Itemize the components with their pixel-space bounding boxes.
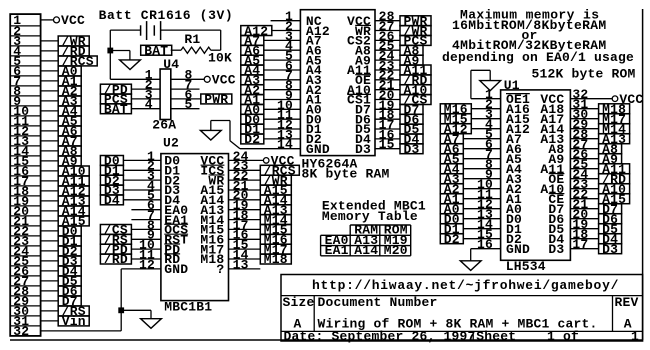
wire J1 pin 6: [41, 70, 59, 72]
net label A1: [241, 95, 264, 105]
svg-text:Vin: Vin: [62, 314, 86, 329]
wire: [375, 39, 400, 41]
wire: [375, 108, 400, 110]
wire: [264, 39, 301, 41]
wire: [375, 49, 400, 51]
wire J1 pin 17: [41, 180, 59, 182]
wire: [131, 228, 161, 230]
wire: [463, 158, 500, 160]
net label D6: [58, 286, 81, 296]
wire: [375, 99, 400, 101]
wire: [229, 258, 261, 260]
wire J1 pin 13: [41, 140, 59, 142]
net label A8: [400, 45, 423, 55]
wire: [570, 198, 598, 200]
net label A3: [241, 75, 264, 85]
svg-text:5: 5: [185, 97, 193, 112]
wire: [463, 148, 500, 150]
svg-text:D2: D2: [244, 132, 260, 147]
net label /PD: [100, 84, 131, 94]
net label /RCS: [58, 56, 97, 66]
op-amp U4 26A reset IC: [160, 69, 171, 120]
net label A2: [241, 85, 264, 95]
wire: [375, 69, 400, 71]
svg-text:4: 4: [145, 97, 153, 112]
wire: [264, 79, 301, 81]
wire J1 pin 3: [41, 40, 59, 42]
wire J1 pin 23: [41, 240, 59, 242]
wire J1 pin 24: [41, 250, 59, 252]
net label /CS: [100, 225, 131, 235]
wire: [264, 118, 301, 120]
svg-text:16: 16: [477, 237, 493, 252]
wire: [264, 49, 301, 51]
wire J1 pin 4: [41, 50, 59, 52]
svg-text:M20: M20: [384, 243, 408, 258]
svg-text:MBC1B1: MBC1B1: [164, 299, 212, 314]
svg-text:U4: U4: [163, 57, 179, 72]
wire junction to ground: [110, 50, 130, 52]
wire J1 pin 28: [41, 290, 59, 292]
net label D5: [599, 224, 622, 234]
wire: [471, 128, 500, 130]
net label M18: [260, 254, 291, 264]
wire: [264, 89, 301, 91]
net label A14: [260, 195, 291, 205]
wire: [463, 218, 500, 220]
svg-text:Document Number: Document Number: [318, 295, 438, 310]
net label A7: [241, 36, 264, 46]
title block: [281, 275, 643, 342]
wire J1 pin 26: [41, 270, 59, 272]
net label A5: [241, 55, 264, 65]
net label A2: [440, 184, 463, 194]
svg-text:?: ?: [216, 262, 224, 277]
net label D4: [100, 195, 123, 205]
net label A12: [440, 124, 471, 134]
wire J1 pin 9: [41, 100, 59, 102]
net label D2: [241, 134, 264, 144]
net label A6: [58, 126, 81, 136]
wire: [123, 159, 160, 161]
net label D3: [599, 244, 622, 254]
net label A4: [241, 65, 264, 75]
net label A2: [58, 86, 81, 96]
net label /RD: [599, 174, 630, 184]
net label A3: [440, 174, 463, 184]
svg-text:D3: D3: [602, 242, 618, 257]
wire: [570, 138, 598, 140]
junction ground rail: [119, 308, 124, 313]
svg-text:A14: A14: [354, 243, 378, 258]
net label D6: [599, 214, 622, 224]
wire: [375, 30, 400, 32]
net label A10: [599, 184, 630, 194]
sheet border right: [642, 9, 644, 340]
wire J1 pin 27: [41, 280, 59, 282]
net label A8: [599, 144, 622, 154]
wire: [229, 248, 261, 250]
wire: [375, 59, 400, 61]
wire: [570, 228, 598, 230]
battery B1 CR1616: [140, 25, 142, 35]
wire: [570, 238, 598, 240]
net label /RS: [58, 306, 89, 316]
net label D2: [100, 175, 123, 185]
resistor R1 10K: [171, 49, 181, 51]
svg-text:BAT: BAT: [104, 102, 128, 117]
wire: [264, 69, 301, 71]
wire: [463, 138, 500, 140]
svg-text:D3: D3: [548, 242, 564, 257]
net label /RCS: [260, 165, 299, 175]
wire J1 pin 5: [41, 60, 59, 62]
wire: [463, 188, 500, 190]
net label A14: [58, 206, 89, 216]
net label A13: [599, 134, 630, 144]
wire J1 pin 15: [41, 160, 59, 162]
wire J1 pin 31: [41, 320, 59, 322]
net label D3: [400, 144, 423, 154]
net label A1: [440, 194, 463, 204]
net label M14: [599, 124, 630, 134]
svg-text:26A: 26A: [152, 118, 176, 133]
net label D7: [58, 296, 81, 306]
wire ROM GND pin 16: [471, 248, 501, 250]
net label A10: [400, 85, 431, 95]
net label A11: [58, 176, 89, 186]
wire stub RAM pin 1 NC: [271, 20, 301, 22]
net label A9: [599, 154, 622, 164]
ground: [120, 60, 141, 70]
ground: [200, 130, 221, 140]
wire: [375, 138, 400, 140]
svg-text:32: 32: [13, 324, 29, 339]
net label A11: [599, 164, 630, 174]
svg-text:M18: M18: [264, 252, 288, 267]
wire: [570, 148, 598, 150]
svg-text:GND: GND: [506, 242, 530, 257]
net label /RS: [100, 234, 131, 244]
wire: [375, 89, 400, 91]
wire stub: [171, 88, 200, 90]
net label A15: [58, 216, 89, 226]
wire: [264, 138, 301, 140]
wire: [570, 188, 598, 190]
wire J1 pin 25: [41, 260, 59, 262]
wire J1 pin 12: [41, 130, 59, 132]
ground: [141, 319, 162, 329]
net label A5: [58, 116, 81, 126]
connector J1 (cart edge, 32 pins): [10, 14, 40, 336]
ground: [460, 261, 481, 271]
net label A4: [440, 164, 463, 174]
net label D7: [400, 104, 423, 114]
power arrow at ROM pin 1: [471, 98, 501, 100]
net label D4: [58, 266, 81, 276]
net label M14: [260, 215, 291, 225]
wire U2 GND pin 12: [121, 268, 161, 270]
wire: [375, 118, 400, 120]
wire: [375, 20, 400, 22]
net label A0: [58, 66, 81, 76]
net label /CS: [400, 95, 431, 105]
wire to ground: [121, 309, 151, 311]
net label A0: [241, 104, 264, 114]
net label D0: [58, 226, 81, 236]
net label A3: [58, 96, 81, 106]
net label D1: [58, 236, 81, 246]
svg-text:Batt CR1616 (3V): Batt CR1616 (3V): [99, 8, 234, 23]
wire: [463, 198, 500, 200]
wire: [264, 99, 301, 101]
wire: [375, 79, 400, 81]
net label /RD: [100, 254, 131, 264]
net label D1: [241, 124, 264, 134]
power VCC at J1 pin 1: [41, 19, 54, 21]
svg-text:1 of: 1 of: [547, 329, 579, 344]
svg-text:EA1: EA1: [325, 243, 349, 258]
wire J1 pin 20: [41, 210, 59, 212]
net label A13: [58, 196, 89, 206]
svg-text:D2: D2: [444, 232, 460, 247]
table extended MBC1 memory: [350, 224, 411, 226]
wire: [570, 248, 598, 250]
wire battery positive to R1: [161, 29, 221, 31]
wire: [463, 238, 500, 240]
IC U3 HY6264A 8K RAM: [300, 10, 375, 156]
svg-text:Sheet: Sheet: [476, 329, 516, 344]
svg-text:depending on EA0/1 usage: depending on EA0/1 usage: [442, 50, 634, 65]
wire EA stub: [131, 209, 161, 211]
wire: [131, 238, 161, 240]
wire: [570, 218, 598, 220]
wire: [471, 118, 500, 120]
wire stub: [171, 108, 200, 110]
wire J1 pin 30: [41, 310, 59, 312]
svg-text:/RD: /RD: [104, 252, 128, 267]
net label D1: [440, 224, 463, 234]
wire J1 pin 16: [41, 170, 59, 172]
wire: [570, 208, 598, 210]
net label Vin: [58, 316, 89, 326]
net label D7: [599, 204, 622, 214]
power VCC at ROM pin 32: [570, 98, 612, 100]
net label PWR: [400, 16, 431, 26]
wire: [570, 128, 598, 130]
net label PCS: [400, 36, 431, 46]
wire J1 pin 29: [41, 300, 59, 302]
svg-text:LH534: LH534: [506, 259, 546, 274]
net label A1: [58, 76, 81, 86]
net label A4: [58, 106, 81, 116]
wire: [570, 118, 598, 120]
net label D3: [58, 256, 81, 266]
net label D6: [400, 114, 423, 124]
wire: [463, 228, 500, 230]
wire: [123, 199, 160, 201]
net label A10: [58, 166, 89, 176]
svg-text:R1: R1: [184, 32, 200, 47]
svg-text:http://hiwaay.net/~jfrohwei/ga: http://hiwaay.net/~jfrohwei/gameboy/: [312, 278, 619, 293]
net label M15: [440, 114, 471, 124]
wire J1 pin 10: [41, 110, 59, 112]
net label M16: [260, 234, 291, 244]
net label /WR: [260, 175, 291, 185]
wire: [375, 128, 400, 130]
wire battery negative down to U4 pin 1: [109, 30, 111, 79]
wire: [570, 108, 598, 110]
net label A15: [599, 194, 630, 204]
net label D4: [400, 134, 423, 144]
wire: [123, 179, 160, 181]
wire J1 pin 7: [41, 80, 59, 82]
wire: [264, 128, 301, 130]
wire J1 pin 11: [41, 120, 59, 122]
net label A6: [440, 144, 463, 154]
svg-text:D3: D3: [404, 142, 420, 157]
svg-text:GND: GND: [164, 262, 188, 277]
wire J1 pin 22: [41, 230, 59, 232]
wire: [375, 148, 400, 150]
wire J1 pin 14: [41, 150, 59, 152]
net label PCS: [100, 94, 131, 104]
wire: [229, 169, 261, 171]
wire: [570, 178, 598, 180]
svg-text:10K: 10K: [208, 51, 232, 66]
wire: [229, 199, 261, 201]
junction battery negative / ground: [108, 48, 113, 53]
net label A7: [58, 136, 81, 146]
net label A0: [440, 204, 463, 214]
svg-text:D3: D3: [355, 142, 371, 157]
svg-text:VCC: VCC: [212, 73, 236, 88]
svg-text:REV: REV: [615, 295, 639, 310]
wire RAM GND pin 14: [240, 148, 300, 150]
wire: [463, 168, 500, 170]
svg-text:512K byte ROM: 512K byte ROM: [532, 67, 636, 82]
wire: [229, 219, 261, 221]
net label /RD: [58, 46, 89, 56]
net label D0: [241, 114, 264, 124]
wire: [471, 108, 500, 110]
net label D3: [100, 185, 123, 195]
net label D0: [100, 156, 123, 166]
net label /WR: [58, 36, 89, 46]
wire: [131, 248, 161, 250]
net label M17: [599, 114, 630, 124]
wire: [229, 238, 261, 240]
wire: [229, 228, 261, 230]
net label /WR: [400, 26, 431, 36]
wire: [229, 189, 261, 191]
wire EA stub: [131, 219, 161, 221]
net label /PD: [100, 244, 131, 254]
svg-text:Date: September 26, 1997: Date: September 26, 1997: [284, 329, 476, 344]
wire: [570, 168, 598, 170]
net label D2: [440, 234, 463, 244]
net label M16: [440, 104, 471, 114]
wire battery negative: [110, 29, 140, 31]
svg-text:17: 17: [572, 237, 588, 252]
wire: [570, 158, 598, 160]
svg-text:GND: GND: [306, 142, 330, 157]
net label /RD: [400, 75, 431, 85]
svg-text:U2: U2: [163, 136, 179, 151]
net label BAT: [100, 104, 131, 114]
wire J1 pin 19: [41, 200, 59, 202]
net label A6: [241, 45, 264, 55]
sheet border bottom: [10, 339, 643, 341]
wire: [229, 209, 261, 211]
IC U1 LH534 512K ROM: [501, 90, 571, 260]
net label A7: [440, 134, 463, 144]
net label A8: [58, 146, 81, 156]
svg-text:Size: Size: [283, 295, 315, 310]
wire: [264, 108, 301, 110]
wire: [272, 30, 301, 32]
net label A9: [58, 156, 81, 166]
wire: [123, 169, 160, 171]
wire: [463, 178, 500, 180]
net label A13: [260, 205, 291, 215]
net label D5: [400, 124, 423, 134]
net label D0: [440, 214, 463, 224]
net label D2: [58, 246, 81, 256]
IC U2 MBC1B1: [161, 154, 229, 301]
net label A12: [241, 26, 272, 36]
wire J1 pin 8: [41, 90, 59, 92]
net label A12: [58, 186, 89, 196]
net label D5: [58, 276, 81, 286]
wire: [463, 208, 500, 210]
wire J1 pin 21: [41, 220, 59, 222]
svg-text:VCC: VCC: [61, 13, 85, 28]
net label A9: [400, 55, 423, 65]
svg-text:D4: D4: [104, 193, 120, 208]
net label PWR: [201, 94, 232, 104]
net label M18: [599, 104, 630, 114]
wire: [229, 179, 261, 181]
power VCC at U4 pin 8: [204, 76, 210, 82]
wire: [123, 189, 160, 191]
net label D1: [100, 165, 123, 175]
net label BAT: [141, 45, 172, 55]
net label A5: [440, 154, 463, 164]
svg-text:8K byte RAM: 8K byte RAM: [302, 167, 390, 182]
wire J1 pin 18: [41, 190, 59, 192]
net label M17: [260, 244, 291, 254]
svg-text:1: 1: [631, 329, 639, 344]
svg-text:PWR: PWR: [204, 92, 228, 107]
wire J1 pin 32 to ground rail: [41, 330, 122, 332]
power VCC at U2 pin 24: [229, 159, 264, 161]
net label A15: [260, 185, 291, 195]
wire stub U2 pin 13: [229, 268, 261, 270]
net label M15: [260, 225, 291, 235]
wire: [131, 258, 161, 260]
net label D4: [599, 234, 622, 244]
net label A11: [400, 65, 431, 75]
wire: [264, 59, 301, 61]
